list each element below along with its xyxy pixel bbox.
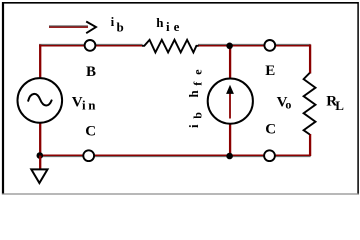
svg-text:i: i (82, 98, 86, 113)
resistor h_ie (142, 40, 199, 53)
junction: top rail / current source branch (226, 43, 233, 50)
label h_ie (156, 15, 179, 34)
current source i_b h_fe (208, 79, 253, 124)
wire: left vertical, top rail to Vin source (39, 45, 41, 79)
svg-text:L: L (335, 98, 344, 113)
label Vo (output voltage) (277, 95, 292, 112)
wire: middle vertical, current source to bottom junction (229, 124, 231, 157)
node B terminal (85, 40, 96, 51)
junction: bottom rail / current source branch (226, 153, 233, 160)
label i_b h_fe (rotated) (186, 69, 205, 128)
wire: top rail left segment (Vin top to resistor h_ie) (39, 44, 143, 45)
svg-text:b: b (191, 112, 205, 119)
wire: bottom rail (common C rail) (39, 155, 311, 156)
svg-text:n: n (88, 98, 96, 113)
current direction arrow i_b (49, 22, 96, 34)
label RL (load resistor) (326, 94, 344, 114)
resistor RL (304, 73, 316, 135)
frame (decorative) (2, 2, 359, 4)
wire: left vertical, Vin source to bottom rail (39, 123, 41, 157)
svg-text:C: C (265, 122, 276, 138)
svg-text:b: b (117, 19, 124, 34)
svg-text:e: e (174, 19, 180, 34)
wire: right vertical, top rail to RL (309, 45, 311, 74)
wire: right vertical, RL to bottom rail (309, 134, 311, 156)
junction: bottom rail / ground branch (37, 152, 44, 159)
wire: middle vertical, top junction to current source (229, 45, 231, 79)
node C terminal (output side) (264, 150, 275, 161)
svg-text:i: i (186, 124, 201, 128)
voltage source Vin (18, 78, 63, 123)
svg-text:E: E (265, 63, 275, 79)
ground (31, 156, 47, 184)
wire: top rail right segment (resistor h_ie to RL top corner) (198, 44, 311, 45)
svg-text:i: i (111, 14, 115, 29)
svg-text:i: i (166, 19, 170, 34)
label i_b (base current) (111, 14, 124, 35)
svg-text:e: e (191, 69, 205, 75)
node E terminal (264, 40, 275, 51)
node C terminal (input side) (83, 150, 94, 161)
svg-text:h: h (156, 15, 164, 30)
label Vin (72, 94, 96, 112)
svg-text:o: o (285, 98, 291, 112)
svg-text:h: h (186, 90, 201, 98)
svg-text:B: B (86, 64, 96, 80)
svg-text:C: C (85, 124, 96, 140)
